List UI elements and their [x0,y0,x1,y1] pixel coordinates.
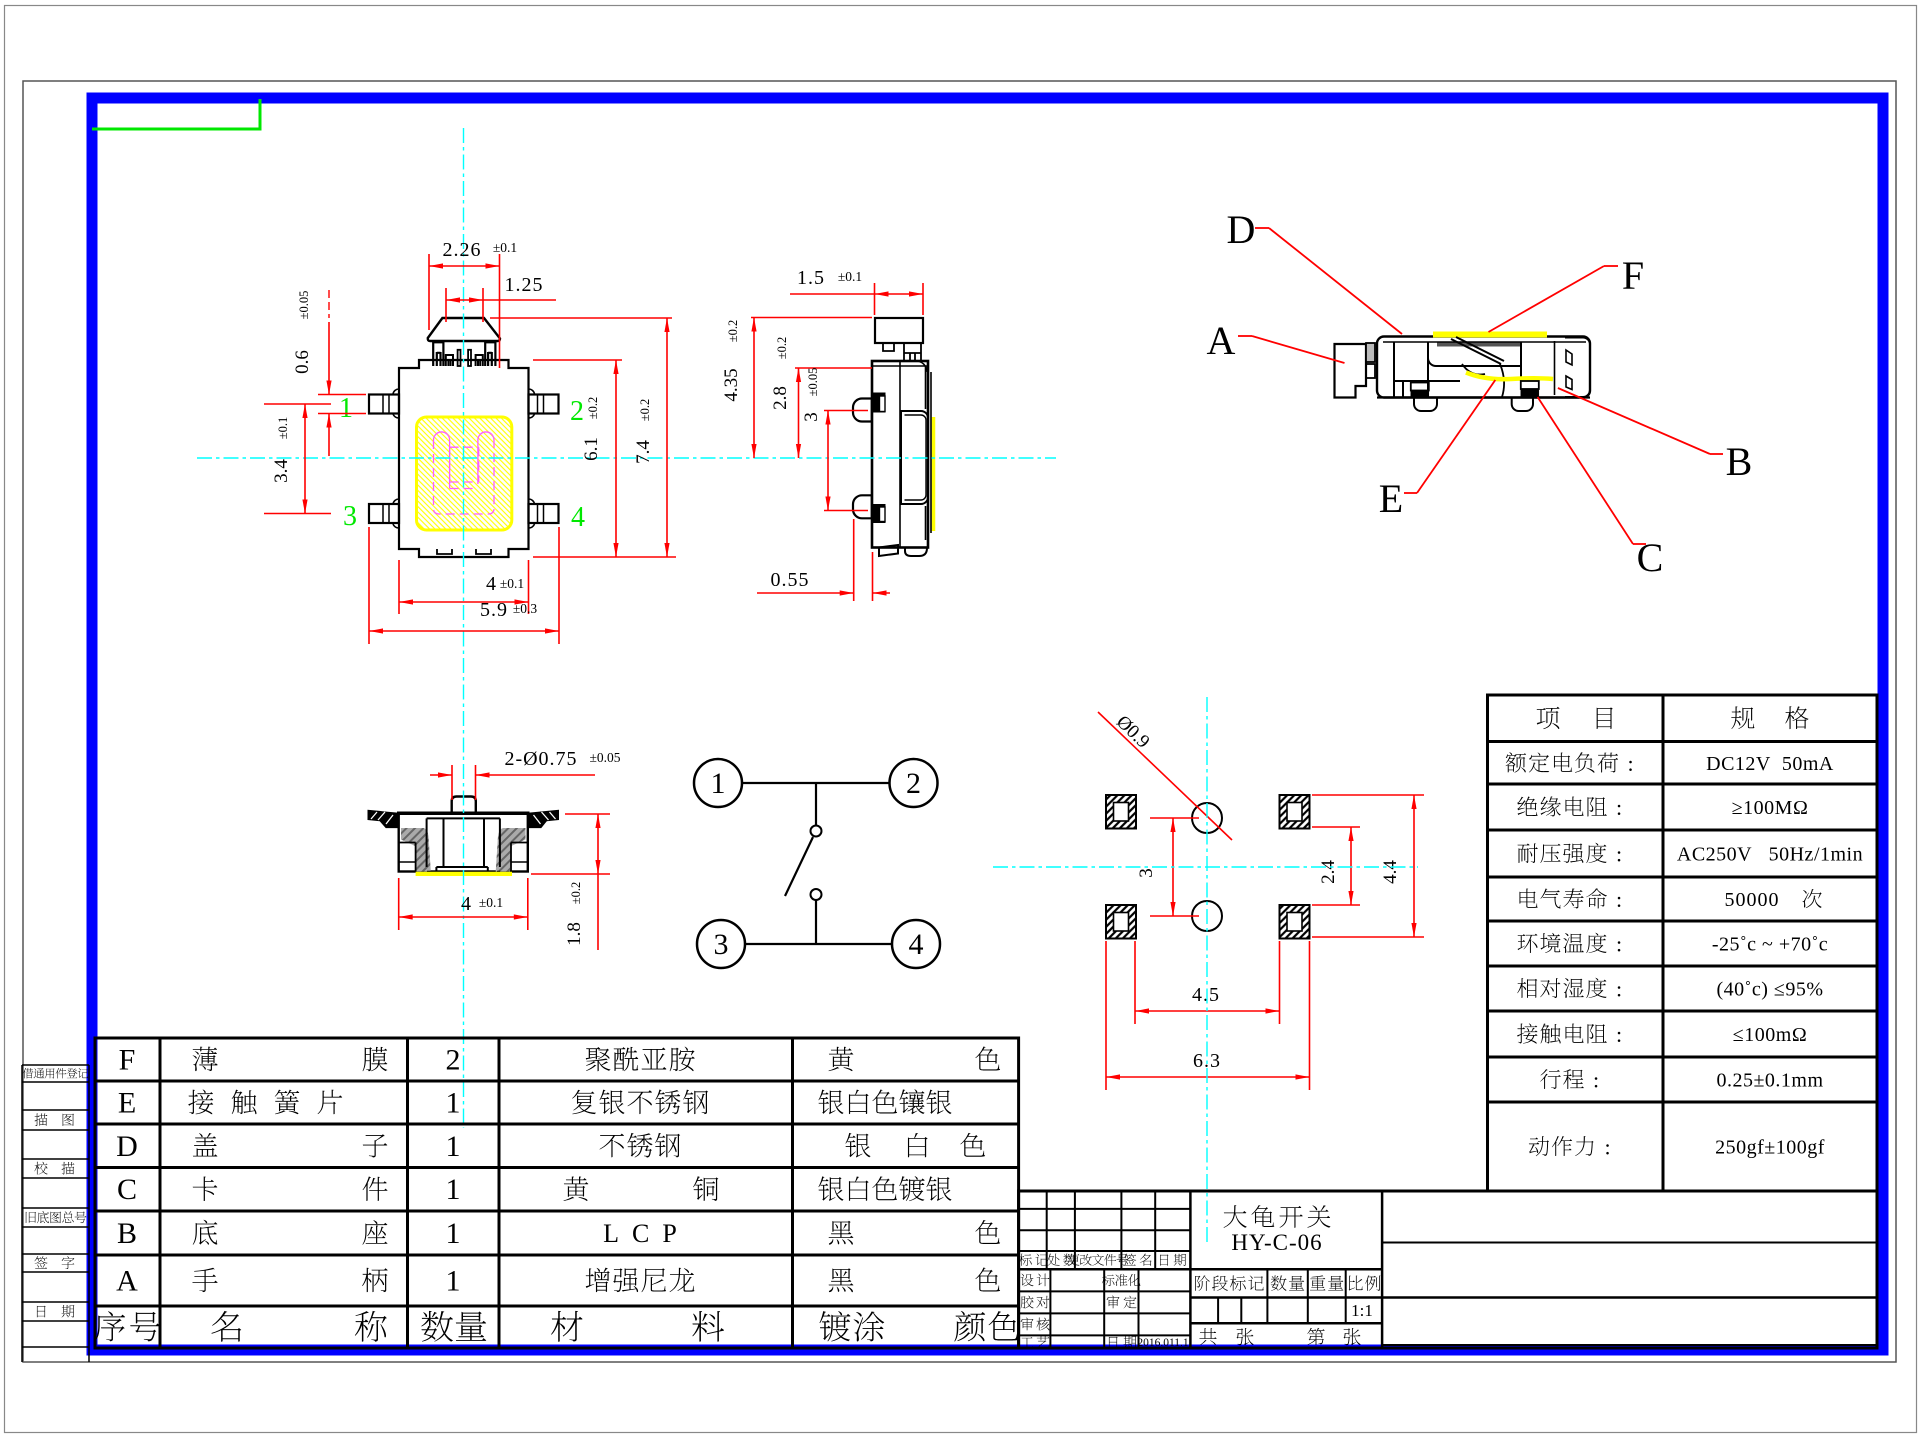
dim 3.4±0.1 [264,403,331,405]
label 审核 [1021,1318,1034,1331]
svg-text:±0.2: ±0.2 [569,882,583,905]
margin bottom line [22,1346,89,1348]
svg-text::: : [1627,751,1633,776]
BOM colour 黑色 [829,1221,854,1245]
signature row lines [1019,1290,1191,1292]
svg-text:1.8: 1.8 [564,922,585,946]
svg-text:1:1: 1:1 [1351,1301,1373,1320]
actuator tall posts [433,341,495,366]
scale grid small columns [1217,1298,1219,1324]
side view body [872,361,928,548]
margin box lines 校描 [22,1158,89,1160]
upper contact [811,826,822,837]
actuator cap trapezoid [428,318,500,341]
svg-text:D: D [116,1130,138,1163]
svg-text:±0.05: ±0.05 [297,291,311,320]
label 设计 [1021,1274,1034,1287]
corner tab edges [418,360,420,368]
svg-text:4.35: 4.35 [721,368,742,401]
pictorial spring dome [1462,364,1504,397]
svg-text:0.6: 0.6 [292,350,313,374]
schematic pin 1 [694,759,742,807]
schematic pin 4 [892,920,940,968]
side view inner walls [899,361,901,548]
margin box lines 描图 [22,1109,89,1111]
BOM colour 银白色镶银 [818,1089,951,1114]
dim 6.1±0.2 [533,359,622,361]
svg-text::: : [1593,1068,1599,1093]
label 日期 [1109,1337,1118,1349]
wire to upper contact [815,783,817,826]
dim 4±0.1 [398,560,400,614]
spec row 绝缘电阻 [1517,796,1606,816]
PCB dim 4.4 [1312,794,1424,796]
side view inner core [901,411,928,504]
svg-text:C: C [1637,535,1664,580]
svg-text:±0.1: ±0.1 [838,269,862,284]
margin label 校描 [34,1162,47,1175]
svg-text:Ø0.9: Ø0.9 [1112,711,1154,752]
front view left wing terminal [368,810,399,827]
dim 1.8±0.2 [565,813,610,815]
spec row 耐压强度 [1518,843,1607,863]
dim 5.9±0.3 [368,527,370,644]
right area lines [1382,1242,1877,1244]
svg-text:7.4: 7.4 [633,440,654,464]
svg-text:6.1: 6.1 [581,437,602,461]
lower contact [811,889,822,900]
BOM 手柄 name [192,1268,217,1292]
margin label 借通用件登记 [23,1068,89,1078]
svg-text:±0.2: ±0.2 [775,337,789,360]
centerline horizontal views 1-2 [197,457,1056,459]
label 审定 [1107,1296,1120,1309]
spec table row lines [1488,740,1878,743]
svg-text:3: 3 [1136,868,1157,878]
dim 4.35±0.2 [751,317,872,319]
svg-text:±0.05: ±0.05 [806,368,820,397]
revision header 标记 处数 更改文件号 签名 日期 [1019,1254,1032,1266]
margin box lines 日期 [22,1301,89,1303]
BOM column lines [159,1038,162,1348]
pictorial left terminal [1411,383,1429,391]
pictorial yellow film inside [1466,373,1553,380]
pictorial film shadow [1437,343,1522,347]
scale grid columns [1266,1269,1268,1323]
centerline vertical view 1 and front view [463,128,465,1128]
dim 1.5±0.1 [874,283,876,315]
BOM material 增强尼龙 [586,1268,695,1293]
wire to lower contact [815,900,817,944]
svg-text:1: 1 [339,393,353,424]
green registration mark [92,99,260,129]
switch body top view outline [399,360,529,557]
switch blade [785,837,813,896]
magenta contact spring contour [434,432,450,489]
pictorial handle neck [1366,343,1375,362]
pictorial clip C parts [1555,341,1573,395]
PCB dim 2.4 [1312,826,1360,828]
PCB pad top-right [1280,795,1310,829]
side view cover top curl [872,361,928,372]
front view plunger guides [426,818,428,867]
spec row 接触电阻 [1517,1023,1607,1043]
svg-text:2.26: 2.26 [443,239,482,261]
label 工艺 [1021,1337,1034,1347]
svg-text:±0.1: ±0.1 [276,417,290,440]
svg-text:1: 1 [446,1130,461,1163]
svg-text:1: 1 [711,767,726,800]
svg-text:C: C [117,1173,137,1206]
front view plunger tip [452,797,476,814]
spec header 项目 规格 [1537,707,1560,729]
revision grid rows [1019,1208,1191,1210]
svg-text:3: 3 [343,501,357,532]
wire pins 1-2 [742,782,890,784]
PCB pad top-left [1106,795,1136,829]
svg-text:±0.2: ±0.2 [586,397,600,420]
svg-text:L C P: L C P [603,1219,677,1248]
margin label 旧底图总号 [26,1211,87,1223]
svg-text:±0.1: ±0.1 [479,895,503,910]
svg-text:1.5: 1.5 [797,267,825,289]
PCB dim 4.5 [1134,941,1136,1024]
spec row 电气寿命 [1519,888,1606,908]
BOM 接触簧片 name [188,1090,213,1115]
schematic pin 2 [890,759,938,807]
PCB hole top Ø0.9 [1192,803,1222,833]
svg-text:F: F [1622,253,1644,298]
margin box lines 借通用件登记 [22,1064,89,1066]
BOM colour 黑色 [829,1268,854,1292]
BOM 盖子 name [193,1133,218,1157]
svg-text:±0.1: ±0.1 [500,576,524,591]
dim 3±0.05 [824,410,868,412]
actuator short posts [446,354,483,366]
svg-text:2: 2 [446,1044,461,1077]
wire pins 3-4 [745,943,892,945]
PCB hole bottom Ø0.9 [1192,901,1222,931]
side view actuator cap [875,318,923,343]
pin 2 terminal [529,395,559,414]
svg-text::: : [1616,932,1622,957]
PCB dim 3 [1150,817,1199,819]
svg-text:A: A [1207,318,1236,363]
title 大龟开关 [1224,1205,1331,1228]
pictorial cover inner line [1383,341,1586,343]
svg-text:HY-C-06: HY-C-06 [1231,1230,1322,1255]
labels 阶段标记 数量 重量 比例 [1195,1275,1264,1290]
svg-text:4: 4 [909,928,924,961]
title box borders [1190,1268,1382,1271]
svg-text::: : [1616,842,1622,867]
svg-text:1: 1 [446,1173,461,1206]
BOM 卡件 name [193,1177,218,1202]
BOM material 黄铜 [564,1177,589,1201]
svg-text:4: 4 [486,573,496,595]
side view pin top [853,398,872,421]
spec row 相对湿度 [1517,978,1606,998]
spec table outline [1488,695,1878,1191]
svg-text:±0.2: ±0.2 [638,399,652,422]
margin box lines 签字 [22,1253,89,1255]
yellow film (F) hatched window [417,417,512,530]
svg-text:-25˚c ~ +70˚c: -25˚c ~ +70˚c [1712,934,1828,956]
svg-text:D: D [1227,207,1256,252]
PCB dim 6.3 [1105,941,1107,1090]
front view yellow film bottom [416,872,512,876]
BOM material 不锈钢 [600,1133,681,1158]
pictorial right terminal [1521,381,1539,389]
dim 0.6±0.05 [318,394,366,396]
BOM 底座 name [193,1220,218,1245]
pictorial bottom edge [1377,396,1590,398]
svg-text:250gf±100gf: 250gf±100gf [1715,1137,1825,1159]
front view hatched base walls [401,828,431,872]
svg-text::: : [1616,887,1622,912]
pictorial right wall B [1565,338,1590,398]
BOM header 序号 名称 数量 材料 镀涂 颜色 [95,1311,125,1341]
pictorial handle A [1335,344,1367,398]
side view bottom feet [879,545,927,556]
svg-text:0.55: 0.55 [771,569,810,591]
sheet count 共 张 第 张 [1199,1328,1216,1345]
spec table column divider [1662,695,1665,1191]
svg-text:A: A [116,1265,138,1298]
svg-text:1: 1 [446,1265,461,1298]
svg-text:2-Ø0.75: 2-Ø0.75 [504,748,577,770]
margin box lines 旧底图总号 [22,1207,89,1209]
BOM row lines [95,1080,1019,1083]
label 标准化 [1102,1274,1141,1286]
svg-text:3: 3 [714,928,729,961]
svg-text:2: 2 [906,767,921,800]
pin 1 terminal [369,395,399,414]
pin 4 terminal [529,504,559,523]
svg-text:4.4: 4.4 [1380,860,1401,884]
actuator middle teeth [458,350,461,366]
pictorial spring blade E [1451,337,1504,364]
BOM table outline [95,1038,1019,1348]
svg-text:F: F [119,1044,136,1077]
svg-text:≤100mΩ: ≤100mΩ [1733,1024,1807,1046]
BOM 薄膜 name [193,1047,218,1072]
side view actuator posts [883,343,921,361]
svg-text:±0.05: ±0.05 [589,750,620,765]
BOM colour 黄色 [829,1047,854,1071]
dim 0.55 [853,519,855,601]
svg-text::: : [1604,1135,1610,1160]
svg-text:3: 3 [801,412,822,422]
pictorial left chamber [1394,342,1428,398]
leader Ø0.9 [1098,712,1232,840]
svg-text:±0.1: ±0.1 [493,240,517,255]
centerline vertical PCB footprint [1206,697,1208,1243]
svg-text:DC12V 50mA: DC12V 50mA [1706,753,1834,775]
pictorial yellow film F top [1433,332,1547,338]
margin label 签字 [34,1256,47,1268]
PCB pad bottom-right [1280,905,1310,939]
BOM material 复银不锈钢 [572,1090,708,1115]
svg-text:5.9: 5.9 [480,599,508,621]
svg-text:1.25: 1.25 [505,274,544,296]
pin root fillets [393,389,535,528]
dim 7.4±0.2 [490,317,672,319]
margin label 描图 [35,1113,48,1126]
front view base steps [415,843,417,872]
svg-text:4: 4 [571,502,585,533]
svg-text:2016.011.1: 2016.011.1 [1137,1337,1189,1349]
svg-text:(40˚c) ≤95%: (40˚c) ≤95% [1717,979,1824,1001]
svg-text:2.8: 2.8 [770,386,791,410]
svg-text:±0.3: ±0.3 [513,601,538,616]
margin label 日期 [37,1306,46,1318]
svg-text:≥100MΩ: ≥100MΩ [1732,797,1809,819]
spec row 环境温度 [1518,933,1607,953]
svg-text:±0.2: ±0.2 [726,320,740,343]
svg-text:3.4: 3.4 [271,459,292,483]
front dim 4±0.1 [398,878,400,930]
svg-text:2: 2 [570,396,584,427]
dim 2.8±0.2 [795,367,872,369]
side view cover right edge [930,372,932,533]
svg-text::: : [1616,795,1622,820]
bottom edge nubs [437,549,491,554]
signature column lines [1049,1269,1051,1348]
svg-text:50000: 50000 [1725,889,1780,911]
centerline horizontal PCB footprint [993,866,1418,868]
svg-text:AC250V 50Hz/1min: AC250V 50Hz/1min [1677,844,1863,866]
dim 2-Ø0.75±0.05 [451,765,453,800]
svg-text:B: B [1726,439,1753,484]
spec row 行程 [1540,1069,1584,1089]
PCB pad bottom-left [1106,905,1136,939]
pictorial cover D outline [1377,337,1590,398]
pictorial bottom feet [1414,398,1437,412]
spec row 额定电负荷 [1506,752,1619,772]
svg-text:1: 1 [446,1217,461,1250]
front view bottom dashed seam [427,871,500,873]
svg-text:0.25±0.1mm: 0.25±0.1mm [1716,1070,1823,1092]
svg-text:E: E [118,1087,136,1120]
BOM colour 银白色镀银 [818,1176,951,1201]
spec row 动作力 [1529,1136,1594,1156]
svg-text:4.5: 4.5 [1192,984,1220,1006]
side view yellow film edge [932,417,936,531]
BOM material 聚酰亚胺 [586,1047,695,1072]
svg-text:B: B [117,1217,137,1250]
label 胶对 [1021,1296,1034,1309]
svg-text::: : [1616,977,1622,1002]
scale grid rows [1190,1296,1877,1299]
svg-text:4: 4 [461,893,471,915]
front view body outline [399,813,528,871]
pictorial inner chamber [1428,342,1521,381]
BOM colour 银白色 [845,1133,870,1158]
title block outline [1019,1191,1877,1348]
svg-text:2.4: 2.4 [1318,860,1339,884]
left margin column borders [21,1065,23,1362]
svg-text:E: E [1379,476,1403,521]
dim 1.25 [445,288,447,322]
pin 3 terminal [369,504,399,523]
schematic pin 3 [697,920,745,968]
side view pin bottom [853,495,872,518]
front view right wing terminal [528,810,559,827]
front view top edge [397,812,530,816]
svg-text::: : [1616,1022,1622,1047]
dim 2.26±0.1 [428,254,430,330]
revision grid columns [1046,1191,1048,1269]
svg-text:1: 1 [446,1087,461,1120]
